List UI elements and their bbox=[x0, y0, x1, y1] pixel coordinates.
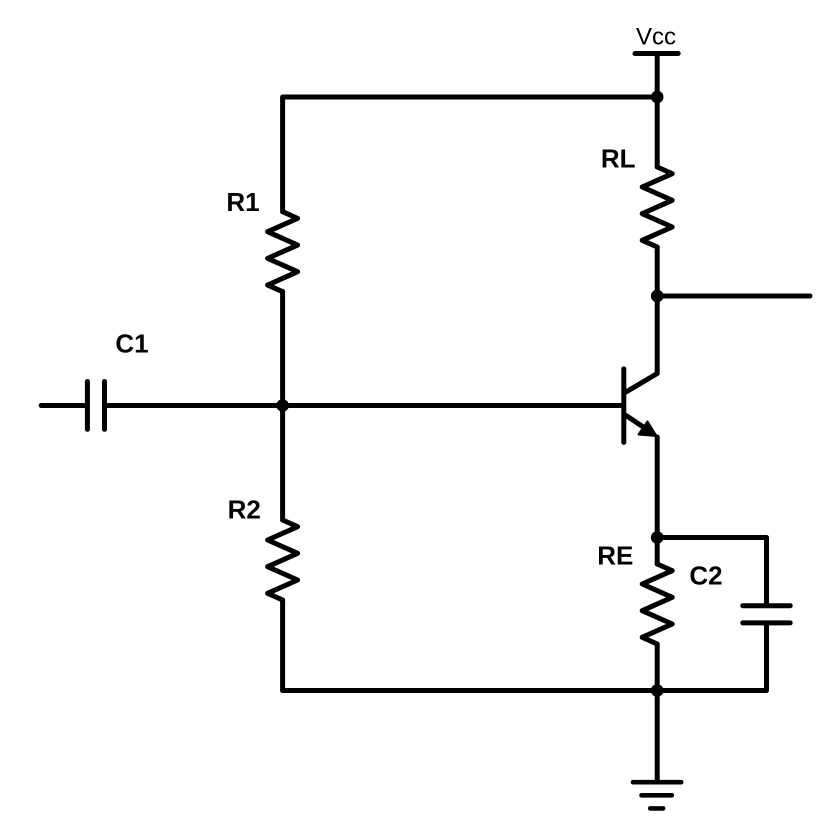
node base junction bbox=[276, 399, 289, 412]
wire ground stem bbox=[655, 691, 660, 783]
svg-text:RL: RL bbox=[601, 143, 636, 173]
wire C1 to base node bbox=[107, 403, 283, 408]
wire Vcc stem bbox=[655, 54, 660, 98]
resistor RE bbox=[642, 564, 672, 644]
transistor Q1 emitter arrowhead bbox=[639, 422, 657, 437]
wire R1 branch bbox=[280, 291, 285, 520]
svg-text:C2: C2 bbox=[689, 561, 722, 591]
node collector top junction bbox=[651, 91, 664, 104]
node bottom junction bbox=[651, 684, 664, 697]
svg-text:RE: RE bbox=[597, 540, 633, 570]
wire collector node to transistor bbox=[655, 296, 660, 374]
node output junction bbox=[651, 290, 664, 303]
svg-text:R2: R2 bbox=[228, 494, 261, 524]
wire collector rail to RL bbox=[655, 97, 660, 167]
wire emitter node to RE bbox=[655, 538, 660, 565]
capacitor C2 bbox=[743, 606, 790, 623]
svg-text:R1: R1 bbox=[226, 187, 259, 217]
wire R2 to bottom rail bbox=[280, 600, 285, 691]
svg-text:Vcc: Vcc bbox=[636, 24, 676, 51]
resistor R1 bbox=[268, 212, 298, 292]
wire input stub bbox=[41, 403, 85, 408]
wire C2 branch top bbox=[657, 538, 766, 604]
resistor R2 bbox=[268, 520, 298, 600]
transistor Q1 base bar bbox=[621, 369, 626, 443]
wire RE to bottom node bbox=[655, 644, 660, 691]
wire bottom rail bbox=[283, 688, 658, 693]
ground bbox=[633, 782, 681, 808]
wire RL to collector node bbox=[655, 247, 660, 296]
wire base bbox=[283, 403, 622, 408]
svg-text:C1: C1 bbox=[115, 329, 148, 359]
wire emitter down bbox=[655, 437, 660, 538]
transistor Q1 collector lead bbox=[626, 374, 657, 393]
resistor RL bbox=[642, 167, 672, 247]
power symbol Vcc bbox=[635, 51, 678, 56]
transistor Q1 emitter lead bbox=[626, 416, 653, 434]
wire output bbox=[657, 294, 810, 299]
node emitter junction bbox=[651, 531, 664, 544]
wire C2 branch bottom bbox=[657, 626, 766, 691]
wire top rail bbox=[283, 97, 658, 212]
capacitor C1 bbox=[87, 382, 104, 430]
